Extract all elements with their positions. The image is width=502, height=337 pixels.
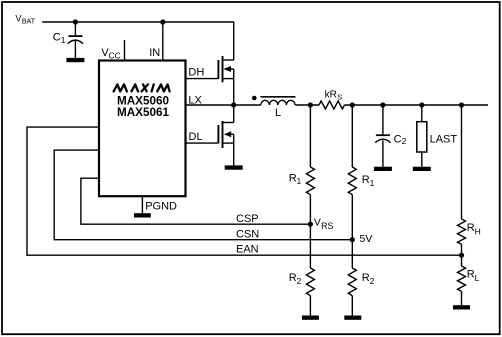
svg-text:CSP: CSP	[236, 213, 259, 225]
svg-text:CSN: CSN	[236, 228, 259, 240]
svg-text:CC: CC	[109, 50, 121, 60]
svg-text:LAST: LAST	[430, 133, 458, 145]
svg-text:2: 2	[402, 136, 407, 146]
svg-text:R: R	[467, 269, 475, 281]
svg-text:RS: RS	[321, 221, 333, 231]
svg-text:kR: kR	[325, 89, 337, 100]
svg-text:5V: 5V	[360, 233, 373, 245]
svg-text:1: 1	[370, 178, 375, 188]
svg-text:1: 1	[61, 35, 66, 45]
svg-text:L: L	[275, 107, 281, 119]
svg-text:R: R	[362, 174, 370, 186]
svg-text:2: 2	[297, 276, 302, 286]
svg-text:R: R	[289, 172, 297, 184]
svg-text:BAT: BAT	[22, 19, 36, 26]
svg-text:R: R	[467, 222, 475, 234]
svg-text:DL: DL	[189, 131, 203, 143]
svg-text:IN: IN	[149, 47, 160, 59]
svg-text:H: H	[475, 227, 481, 237]
svg-text:2: 2	[370, 276, 375, 286]
svg-text:PGND: PGND	[145, 200, 177, 212]
svg-text:C: C	[53, 32, 61, 44]
svg-text:R: R	[289, 272, 297, 284]
svg-text:MAX5061: MAX5061	[117, 106, 169, 119]
svg-text:S: S	[337, 93, 342, 102]
svg-text:L: L	[475, 273, 480, 283]
svg-text:V: V	[314, 216, 321, 228]
svg-text:C: C	[394, 133, 402, 145]
svg-text:LX: LX	[188, 94, 202, 106]
svg-text:DH: DH	[188, 66, 204, 78]
svg-text:EAN: EAN	[236, 244, 259, 256]
svg-text:1: 1	[297, 176, 302, 186]
svg-text:R: R	[362, 272, 370, 284]
